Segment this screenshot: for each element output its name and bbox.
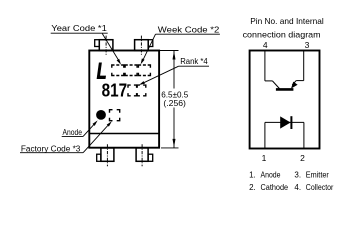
svg-text:Anode: Anode (261, 171, 281, 180)
svg-text:1.: 1. (249, 171, 256, 180)
svg-text:Cathode: Cathode (261, 183, 289, 192)
svg-text:Week Code *2: Week Code *2 (158, 25, 220, 34)
svg-text:(.256): (.256) (163, 99, 186, 108)
svg-text:connection diagram: connection diagram (243, 30, 321, 40)
svg-text:Emitter: Emitter (306, 171, 329, 180)
svg-text:Factory Code *3: Factory Code *3 (21, 144, 81, 153)
svg-text:3.: 3. (294, 171, 301, 180)
svg-text:1: 1 (262, 153, 267, 163)
svg-text:Collector: Collector (306, 183, 334, 192)
svg-text:2: 2 (300, 153, 305, 163)
svg-text:817: 817 (102, 80, 128, 100)
svg-text:4: 4 (263, 40, 268, 50)
svg-text:Pin No. and Internal: Pin No. and Internal (250, 16, 324, 26)
svg-text:Anode: Anode (63, 128, 83, 137)
svg-text:Rank *4: Rank *4 (180, 57, 208, 66)
svg-text:Year Code *1: Year Code *1 (51, 24, 107, 33)
svg-text:4.: 4. (294, 183, 301, 192)
svg-text:2.: 2. (249, 183, 256, 192)
svg-text:3: 3 (305, 40, 310, 50)
